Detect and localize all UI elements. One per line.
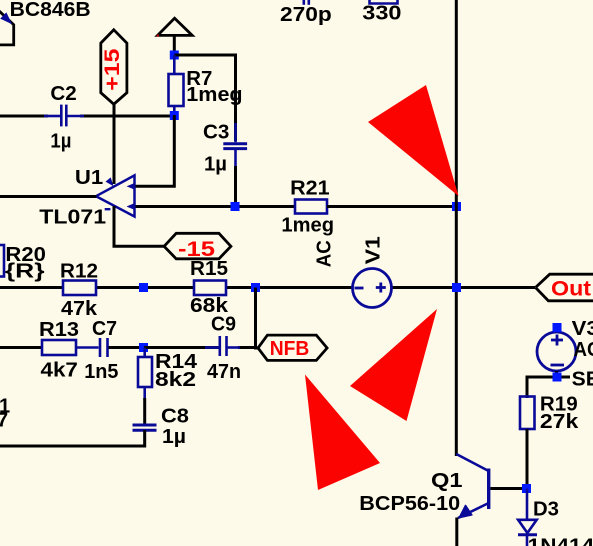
voltage source V3: [537, 332, 576, 371]
node junction at R7 top: [170, 51, 179, 60]
capacitor C2: [44, 105, 84, 127]
resistor R19: [520, 397, 535, 430]
wire op-amp output to left edge: [0, 195, 97, 198]
power flag +15: [101, 30, 127, 104]
wire R14 to C8: [143, 398, 146, 424]
svg-text:C9: C9: [211, 314, 236, 336]
svg-text:V1: V1: [363, 236, 385, 264]
annotation arrow 1: [368, 85, 459, 196]
svg-text:47n: 47n: [207, 361, 241, 383]
svg-text:BCP56-10: BCP56-10: [359, 493, 460, 515]
wire +15 stem down to op-amp V+: [113, 104, 116, 184]
svg-text:4k7: 4k7: [41, 360, 78, 382]
node junction R15 right / NFB drop: [251, 283, 260, 292]
global label NFB: [258, 335, 327, 360]
pin marker V3 top: [553, 323, 562, 332]
svg-text:C8: C8: [161, 406, 189, 428]
svg-text:+15: +15: [101, 48, 124, 91]
wire + input from R7 node: [135, 115, 175, 186]
svg-text:R21: R21: [290, 178, 330, 200]
annotation arrow 3: [305, 375, 380, 491]
wire - input feedback line to R21: [135, 205, 297, 208]
svg-text:47k: 47k: [61, 298, 98, 320]
svg-text:1meg: 1meg: [281, 215, 334, 237]
svg-text:270p: 270p: [280, 4, 332, 26]
wire V- from op-amp to -15 flag: [114, 206, 164, 246]
svg-text:R13: R13: [39, 319, 79, 341]
wire row3 left: [0, 286, 535, 289]
svg-text:1µ: 1µ: [50, 130, 71, 152]
svg-text:R12: R12: [60, 261, 98, 283]
wire main vertical line: [455, 0, 458, 456]
node junction V3 bottom: [553, 373, 562, 382]
svg-text:BC846B: BC846B: [10, 0, 91, 21]
resistor R7: [169, 55, 184, 116]
svg-text:R15: R15: [190, 258, 228, 280]
node junction R7 bottom / C2 wire: [170, 111, 179, 120]
wire row4 left (R13/C7 line): [0, 346, 42, 349]
svg-text:U1: U1: [75, 167, 103, 189]
svg-text:8k2: 8k2: [155, 369, 196, 391]
transistor Q1 BCP56-10: [456, 454, 490, 518]
wire Q1 base to junction: [490, 487, 527, 490]
svg-text:1N4148: 1N4148: [528, 535, 593, 546]
resistor R20 (partial, left edge): [0, 245, 4, 277]
svg-text:330: 330: [362, 2, 401, 24]
voltage source V1: [353, 269, 392, 308]
capacitor C9: [205, 336, 240, 356]
capacitor C? 270p (partial, top edge): [304, 0, 309, 5]
svg-text:Q1: Q1: [431, 470, 463, 492]
pin arrow + input: [127, 183, 136, 190]
svg-text:{R}: {R}: [5, 260, 45, 282]
svg-text:1n5: 1n5: [84, 361, 118, 383]
wire C3 bottom to feedback wire: [234, 166, 237, 207]
resistor R12: [63, 281, 96, 296]
svg-text:1µ: 1µ: [162, 426, 186, 448]
svg-text:C7: C7: [92, 318, 117, 340]
svg-text:NFB: NFB: [270, 338, 310, 360]
svg-text:D3: D3: [533, 499, 559, 521]
wire triangle stem: [173, 35, 176, 59]
resistor R13: [42, 340, 76, 355]
resistor R15: [194, 281, 226, 296]
node junction R14 top: [139, 343, 148, 352]
wire R21 to main node: [327, 205, 457, 208]
svg-text:1meg: 1meg: [186, 84, 242, 106]
power symbol (triangle) above R7: [157, 18, 192, 36]
node junction base/R19/D3: [522, 484, 531, 493]
pin arrow - input: [127, 203, 136, 210]
capacitor C7: [76, 338, 120, 357]
node junction R12/R15/R14 column: [139, 283, 148, 292]
svg-text:AC: AC: [314, 240, 336, 267]
wire from node to C3 top: [174, 55, 235, 141]
svg-text:Out: Out: [551, 277, 591, 300]
node junction C3/feedback: [231, 202, 240, 211]
node junction main vertical / feedback: [452, 202, 461, 211]
svg-text:7: 7: [0, 410, 8, 432]
wire C7 to junction: [109, 346, 145, 349]
svg-text:C2: C2: [50, 83, 76, 105]
wire row1 (C2 line): [0, 115, 174, 118]
resistor R? 330 (partial, top edge): [370, 0, 398, 4]
wire row5 C8 to left edge: [0, 430, 145, 446]
diode D3: [518, 489, 537, 546]
annotation arrow 2: [350, 309, 437, 421]
power flag -15: [164, 233, 231, 261]
capacitor C3: [223, 123, 247, 168]
resistor R21: [295, 200, 327, 214]
capacitor C8: [133, 425, 157, 446]
svg-text:SET: SET: [572, 369, 593, 391]
transistor Q BC846B (partial, top-left corner): [0, 9, 14, 45]
op-amp U1 TL071: [96, 175, 135, 216]
global label Out: [536, 274, 593, 301]
wire R19 bottom to base node: [526, 429, 529, 489]
wire NFB drop: [238, 288, 259, 349]
svg-text:1µ: 1µ: [204, 154, 227, 176]
svg-text:27k: 27k: [540, 411, 579, 433]
resistor R14: [138, 348, 152, 401]
wire Q1 emitter down: [455, 518, 458, 546]
node junction main vertical / out row: [452, 283, 461, 292]
svg-text:AC: AC: [574, 339, 593, 361]
svg-text:TL071: TL071: [39, 207, 106, 229]
wire junction to C9: [144, 346, 219, 349]
svg-text:C3: C3: [203, 122, 229, 144]
svg-text:V3: V3: [572, 318, 593, 340]
wire V3 bottom to junction and sides: [527, 371, 570, 398]
